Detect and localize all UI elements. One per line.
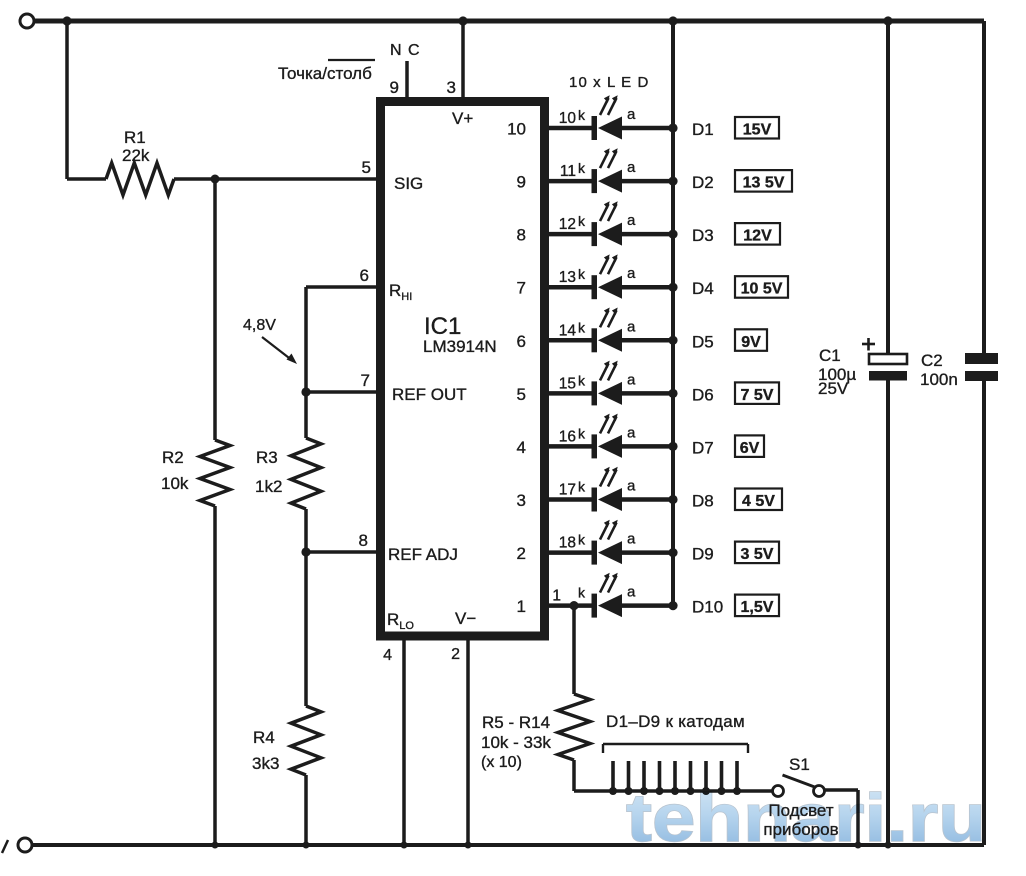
svg-text:Точка/столб: Точка/столб [278, 64, 372, 83]
svg-text:C2: C2 [921, 351, 943, 370]
svg-text:10k: 10k [161, 474, 189, 493]
svg-text:k: k [578, 372, 586, 388]
svg-text:приборов: приборов [763, 820, 838, 839]
svg-text:V+: V+ [452, 109, 473, 128]
svg-text:3 5V: 3 5V [741, 546, 774, 563]
svg-text:R5 - R14: R5 - R14 [482, 713, 550, 732]
svg-text:D10: D10 [692, 598, 723, 617]
svg-text:R2: R2 [162, 448, 184, 467]
svg-text:10k - 33k: 10k - 33k [481, 733, 551, 752]
svg-text:2: 2 [451, 646, 460, 663]
svg-text:8: 8 [517, 226, 526, 245]
svg-text:k: k [578, 479, 586, 495]
svg-text:1,5V: 1,5V [741, 599, 774, 616]
svg-text:D3: D3 [692, 226, 714, 245]
svg-text:k: k [578, 266, 586, 282]
svg-text:3k3: 3k3 [252, 754, 279, 773]
svg-text:22k: 22k [122, 146, 150, 165]
svg-text:k: k [578, 107, 586, 123]
svg-text:1: 1 [517, 597, 526, 616]
svg-text:2: 2 [517, 544, 526, 563]
svg-text:4: 4 [383, 647, 392, 664]
svg-text:k: k [578, 585, 586, 601]
svg-text:D9: D9 [692, 545, 714, 564]
svg-text:13 5V: 13 5V [743, 175, 785, 192]
svg-text:D1–D9 к катодам: D1–D9 к катодам [606, 712, 745, 731]
svg-text:D7: D7 [692, 438, 714, 457]
svg-text:V−: V− [455, 609, 476, 628]
svg-text:3: 3 [447, 78, 456, 97]
svg-text:6: 6 [517, 332, 526, 351]
svg-text:R3: R3 [256, 448, 278, 467]
svg-text:1k2: 1k2 [255, 477, 282, 496]
svg-text:a: a [627, 371, 636, 388]
svg-text:4 5V: 4 5V [742, 493, 775, 510]
svg-text:D6: D6 [692, 385, 714, 404]
svg-text:k: k [578, 425, 586, 441]
svg-text:Подсвет: Подсвет [768, 801, 833, 820]
svg-text:k: k [578, 532, 586, 548]
svg-text:REF ADJ: REF ADJ [388, 545, 458, 564]
svg-text:14: 14 [559, 322, 577, 339]
svg-text:D2: D2 [692, 173, 714, 192]
svg-text:a: a [627, 265, 636, 282]
svg-text:D5: D5 [692, 332, 714, 351]
svg-text:7 5V: 7 5V [741, 387, 774, 404]
svg-text:D8: D8 [692, 492, 714, 511]
svg-text:a: a [627, 212, 636, 229]
svg-text:6V: 6V [740, 440, 760, 457]
svg-text:25V: 25V [818, 379, 849, 398]
svg-text:13: 13 [559, 269, 576, 286]
svg-text:a: a [627, 478, 636, 495]
svg-text:k: k [578, 213, 586, 229]
svg-text:a: a [627, 531, 636, 548]
svg-text:15V: 15V [743, 122, 772, 139]
svg-text:6: 6 [360, 266, 369, 285]
svg-text:7: 7 [361, 371, 370, 390]
svg-text:3: 3 [517, 491, 526, 510]
svg-text:D4: D4 [692, 279, 714, 298]
svg-text:16: 16 [559, 428, 576, 445]
svg-text:a: a [627, 106, 636, 123]
svg-text:9V: 9V [741, 334, 761, 351]
svg-text:R4: R4 [253, 728, 275, 747]
svg-text:10 x L E D: 10 x L E D [569, 74, 649, 91]
svg-text:R1: R1 [124, 128, 146, 147]
svg-text:9: 9 [390, 78, 399, 97]
svg-text:REF OUT: REF OUT [392, 385, 467, 404]
svg-text:100n: 100n [920, 370, 958, 389]
svg-text:12V: 12V [743, 228, 772, 245]
svg-text:10: 10 [507, 120, 526, 139]
svg-text:17: 17 [559, 482, 576, 499]
svg-text:C1: C1 [819, 346, 841, 365]
svg-text:11: 11 [560, 163, 576, 180]
svg-text:k: k [578, 319, 586, 335]
svg-text:k: k [578, 160, 586, 176]
svg-text:4: 4 [517, 438, 526, 457]
svg-text:4,8V: 4,8V [243, 317, 276, 334]
svg-text:(x 10): (x 10) [481, 754, 522, 771]
svg-text:N C: N C [390, 42, 421, 59]
svg-text:15: 15 [559, 375, 576, 392]
svg-text:12: 12 [559, 216, 576, 233]
svg-text:a: a [627, 424, 636, 441]
svg-text:1: 1 [552, 588, 561, 605]
svg-text:8: 8 [359, 531, 368, 550]
svg-text:a: a [627, 318, 636, 335]
svg-text:S1: S1 [789, 755, 810, 774]
svg-text:IC1: IC1 [424, 313, 461, 340]
svg-text:10: 10 [559, 110, 577, 127]
svg-text:SIG: SIG [394, 174, 423, 193]
svg-text:D1: D1 [692, 120, 714, 139]
svg-text:9: 9 [517, 173, 526, 192]
svg-text:a: a [627, 159, 636, 176]
svg-text:5: 5 [517, 385, 526, 404]
svg-text:18: 18 [559, 535, 576, 552]
svg-text:a: a [627, 584, 636, 601]
svg-text:LM3914N: LM3914N [423, 337, 497, 356]
svg-text:10 5V: 10 5V [741, 281, 783, 298]
svg-text:5: 5 [362, 158, 371, 177]
svg-text:7: 7 [517, 279, 526, 298]
